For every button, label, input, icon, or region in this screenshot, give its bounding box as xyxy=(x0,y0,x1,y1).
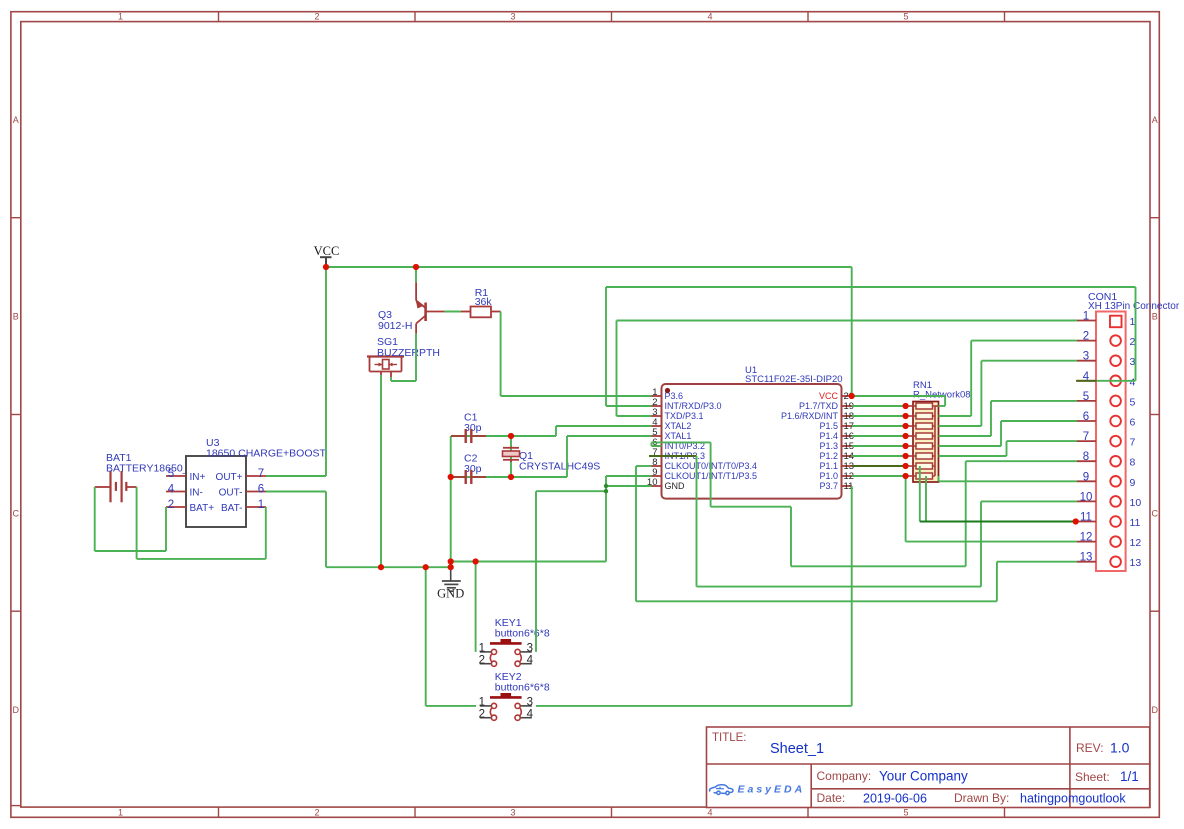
svg-text:2: 2 xyxy=(1083,331,1089,343)
svg-text:REV:: REV: xyxy=(1076,741,1104,755)
svg-text:4: 4 xyxy=(707,12,712,22)
svg-text:D: D xyxy=(1151,705,1158,715)
svg-text:7: 7 xyxy=(258,468,264,480)
svg-text:button6*6*8: button6*6*8 xyxy=(495,682,550,694)
svg-text:XH 13Pin Connector: XH 13Pin Connector xyxy=(1088,301,1180,312)
svg-text:GND: GND xyxy=(665,481,686,491)
svg-text:Company:: Company: xyxy=(817,769,872,783)
svg-text:12: 12 xyxy=(1130,537,1142,549)
svg-text:1: 1 xyxy=(479,643,485,655)
svg-text:C: C xyxy=(13,508,20,518)
svg-text:R_Network08: R_Network08 xyxy=(913,390,971,401)
svg-text:Your Company: Your Company xyxy=(879,769,968,784)
svg-text:P3.7: P3.7 xyxy=(819,481,838,491)
svg-text:TXD/P3.1: TXD/P3.1 xyxy=(665,411,704,421)
svg-text:CRYSTALHC49S: CRYSTALHC49S xyxy=(519,461,600,473)
svg-text:TITLE:: TITLE: xyxy=(712,732,747,744)
svg-text:VCC: VCC xyxy=(314,244,340,258)
svg-text:13: 13 xyxy=(1080,552,1093,564)
svg-text:INT/RXD/P3.0: INT/RXD/P3.0 xyxy=(665,401,722,411)
svg-text:BUZZERPTH: BUZZERPTH xyxy=(377,347,440,359)
svg-text:5: 5 xyxy=(1130,396,1136,408)
svg-text:1.0: 1.0 xyxy=(1110,740,1130,756)
svg-text:hatingpomgoutlook: hatingpomgoutlook xyxy=(1020,792,1126,806)
svg-text:5: 5 xyxy=(903,808,908,818)
svg-text:36k: 36k xyxy=(475,296,493,308)
svg-text:10: 10 xyxy=(1080,491,1093,503)
svg-text:5: 5 xyxy=(168,468,174,480)
svg-text:IN+: IN+ xyxy=(190,472,206,483)
svg-text:8: 8 xyxy=(1130,457,1136,469)
svg-text:10: 10 xyxy=(1130,497,1142,509)
svg-text:P1.0: P1.0 xyxy=(819,471,838,481)
svg-text:7: 7 xyxy=(1083,431,1089,443)
svg-text:7: 7 xyxy=(1130,437,1136,449)
svg-text:2: 2 xyxy=(479,654,485,666)
svg-text:4: 4 xyxy=(168,484,175,496)
svg-text:9012-H: 9012-H xyxy=(378,320,412,332)
svg-text:XTAL1: XTAL1 xyxy=(665,431,692,441)
svg-text:Drawn By:: Drawn By: xyxy=(954,791,1009,805)
svg-text:2: 2 xyxy=(168,499,174,511)
svg-text:P1.6/RXD/INT: P1.6/RXD/INT xyxy=(781,411,839,421)
svg-text:12: 12 xyxy=(1080,532,1093,544)
svg-text:6: 6 xyxy=(258,484,264,496)
svg-text:P1.7/TXD: P1.7/TXD xyxy=(799,401,839,411)
svg-text:3: 3 xyxy=(1083,351,1089,363)
svg-text:1: 1 xyxy=(118,808,123,818)
svg-text:4: 4 xyxy=(527,708,534,720)
svg-text:XTAL2: XTAL2 xyxy=(665,421,692,431)
svg-text:4: 4 xyxy=(527,654,534,666)
svg-text:6: 6 xyxy=(1130,417,1136,429)
svg-text:3: 3 xyxy=(510,12,515,22)
svg-text:A: A xyxy=(1152,115,1158,125)
svg-text:5: 5 xyxy=(1083,391,1089,403)
svg-text:2: 2 xyxy=(314,12,319,22)
svg-text:Date:: Date: xyxy=(817,791,846,805)
svg-text:2: 2 xyxy=(314,808,319,818)
svg-text:1: 1 xyxy=(1083,311,1089,323)
svg-text:2019-06-06: 2019-06-06 xyxy=(863,792,927,806)
svg-text:C: C xyxy=(1151,508,1158,518)
svg-text:B: B xyxy=(1152,312,1158,322)
svg-text:D: D xyxy=(13,705,20,715)
svg-text:11: 11 xyxy=(1080,512,1092,524)
svg-text:GND: GND xyxy=(437,587,464,601)
svg-text:EasyEDA: EasyEDA xyxy=(738,784,806,796)
svg-text:3: 3 xyxy=(527,697,533,709)
svg-text:VCC: VCC xyxy=(819,391,839,401)
svg-text:STC11F02E-35I-DIP20: STC11F02E-35I-DIP20 xyxy=(745,374,843,385)
svg-text:OUT+: OUT+ xyxy=(216,472,243,483)
svg-text:2: 2 xyxy=(479,708,485,720)
svg-text:18650 CHARGE+BOOST: 18650 CHARGE+BOOST xyxy=(206,448,327,460)
svg-text:BAT+: BAT+ xyxy=(190,503,215,514)
svg-text:Sheet:: Sheet: xyxy=(1075,770,1110,784)
svg-text:Sheet_1: Sheet_1 xyxy=(770,741,824,757)
svg-text:OUT-: OUT- xyxy=(219,488,243,499)
svg-text:P1.5: P1.5 xyxy=(819,421,838,431)
svg-text:5: 5 xyxy=(903,12,908,22)
svg-text:11: 11 xyxy=(1130,517,1141,529)
svg-text:8: 8 xyxy=(1083,451,1089,463)
svg-text:13: 13 xyxy=(1130,557,1142,569)
svg-text:IN-: IN- xyxy=(190,488,203,499)
svg-text:P1.2: P1.2 xyxy=(819,451,838,461)
svg-text:6: 6 xyxy=(1083,411,1089,423)
svg-text:A: A xyxy=(13,115,19,125)
svg-text:9: 9 xyxy=(1130,477,1136,489)
svg-text:button6*6*8: button6*6*8 xyxy=(495,628,550,640)
svg-text:P1.4: P1.4 xyxy=(819,431,838,441)
svg-text:9: 9 xyxy=(1083,471,1089,483)
svg-text:1/1: 1/1 xyxy=(1120,769,1139,784)
svg-text:1: 1 xyxy=(479,697,485,709)
svg-text:1: 1 xyxy=(258,499,264,511)
svg-text:4: 4 xyxy=(707,808,712,818)
svg-text:3: 3 xyxy=(527,643,533,655)
svg-text:P1.3: P1.3 xyxy=(819,441,838,451)
svg-text:1: 1 xyxy=(118,12,123,22)
svg-text:BAT-: BAT- xyxy=(221,503,242,514)
svg-text:B: B xyxy=(13,312,19,322)
svg-text:P1.1: P1.1 xyxy=(819,461,838,471)
svg-text:3: 3 xyxy=(510,808,515,818)
